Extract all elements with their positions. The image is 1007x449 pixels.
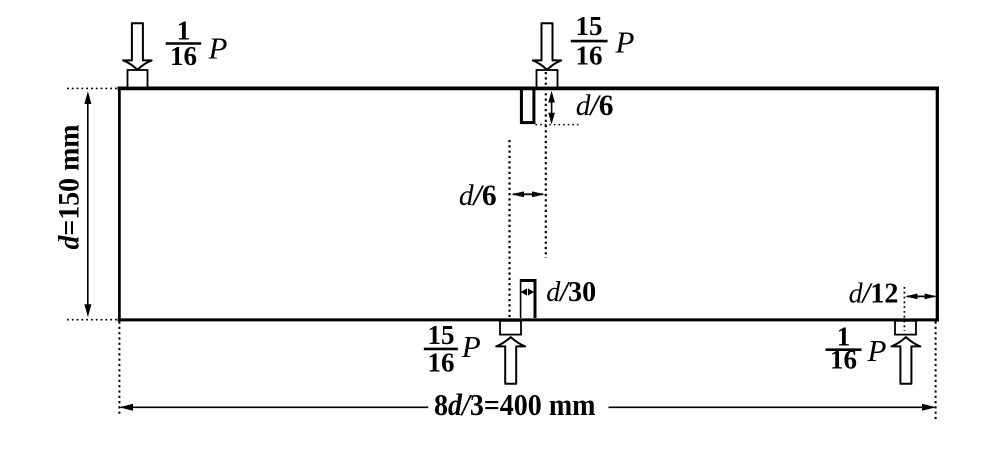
dimension d=150 mm vertical arrow [84, 91, 91, 317]
dimension 8d/3=400 mm horizontal line [119, 404, 936, 411]
svg-text:P: P [867, 333, 887, 368]
svg-text:15: 15 [576, 11, 603, 41]
extension dotted line top-left [67, 87, 118, 89]
centerline dotted top load [545, 72, 547, 258]
svg-text:P: P [615, 25, 635, 60]
svg-text:16: 16 [170, 41, 197, 71]
svg-text:16: 16 [576, 40, 603, 70]
label 1/16 P bottom-right [826, 322, 887, 375]
load arrow 1/16 P top-left (hollow, down) [123, 23, 151, 69]
top notch [520, 90, 535, 124]
centerline dotted bottom load [508, 140, 510, 332]
bearing block bottom-middle [500, 321, 521, 335]
bottom notch [520, 280, 537, 318]
svg-text:16: 16 [428, 347, 455, 377]
load arrow 15/16 P top-middle (hollow, down) [533, 23, 561, 69]
svg-text:P: P [461, 329, 481, 364]
svg-text:d/12: d/12 [849, 279, 899, 310]
dotted line at notch bottom [536, 124, 581, 126]
load arrow 1/16 P bottom-right (hollow, up) [891, 337, 920, 384]
svg-text:d/30: d/30 [546, 277, 596, 308]
svg-text:d/6: d/6 [576, 90, 614, 122]
dimension d/12 horizontal [905, 294, 937, 300]
label 15/16 P top-middle [571, 11, 635, 70]
label d=150 mm [53, 124, 86, 249]
dimension d/6 horizontal between centerlines [511, 191, 545, 197]
extension dotted line d/12 [903, 287, 905, 331]
label d/30 [546, 277, 596, 308]
svg-text:15: 15 [428, 320, 455, 350]
svg-text:d/6: d/6 [459, 180, 497, 212]
extension dotted line bottom-left [67, 319, 118, 321]
label 1/16 P top-left [166, 16, 228, 71]
label d/6 (vertical dim) [576, 90, 614, 122]
extension dotted line below beam left [118, 322, 120, 415]
dimension d/6 vertical (notch depth) [548, 91, 555, 125]
label 15/16 P bottom-middle [424, 320, 481, 377]
svg-text:8d/3=400 mm: 8d/3=400 mm [434, 387, 596, 422]
beam outline [118, 87, 940, 322]
label d/12 [849, 279, 899, 310]
svg-text:16: 16 [830, 344, 857, 374]
bearing block bottom-right [895, 321, 916, 335]
bearing block top-left [128, 70, 148, 88]
dimension d/30 arrows (bowtie) [521, 288, 534, 295]
svg-text:d=150 mm: d=150 mm [53, 124, 86, 249]
label d/6 (horizontal dim) [459, 180, 497, 212]
bearing block top-middle [537, 70, 558, 88]
svg-text:P: P [208, 30, 228, 65]
label 8d/3=400 mm [434, 387, 596, 422]
load arrow 15/16 P bottom-middle (hollow, up) [496, 337, 525, 384]
extension dotted line below beam right [935, 322, 937, 421]
